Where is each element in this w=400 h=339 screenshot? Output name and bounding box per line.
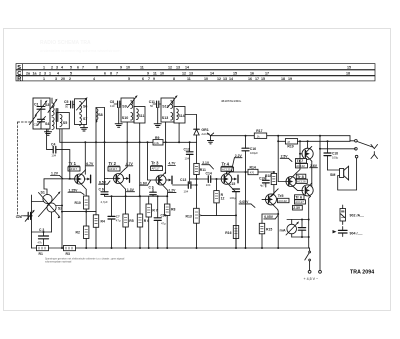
AGC line	[85, 141, 153, 143]
meter mA	[280, 220, 300, 238]
svg-text:46107/9x1/9CL: 46107/9x1/9CL	[221, 99, 242, 103]
svg-text:2: 2	[51, 65, 53, 69]
svg-text:R5: R5	[129, 219, 133, 223]
svg-text:18: 18	[281, 77, 285, 81]
svg-text:Tr 3: Tr 3	[151, 161, 159, 166]
IF3 secondary box S14	[174, 107, 185, 124]
svg-text:C13: C13	[180, 178, 186, 182]
svg-text:14: 14	[229, 77, 233, 81]
svg-text:C4: C4	[51, 142, 55, 146]
node Tr8 upper	[299, 153, 301, 155]
oscillator bottom node line	[32, 231, 52, 233]
svg-text:8: 8	[173, 77, 175, 81]
voltage flag 0.05V right	[264, 215, 278, 219]
wire Tr7 collector to rail	[307, 141, 309, 148]
label Tr5 AC132	[278, 194, 290, 203]
svg-text:9: 9	[153, 77, 155, 81]
svg-text:R10: R10	[75, 201, 81, 205]
supply rail top	[211, 135, 351, 137]
svg-text:R13: R13	[186, 215, 192, 219]
label Tr6 AC127	[295, 195, 306, 204]
svg-text:470: 470	[250, 171, 255, 175]
svg-text:Spanningen gemeten met elektro: Spanningen gemeten met elektronische vol…	[45, 257, 125, 260]
svg-text:1.25V: 1.25V	[69, 188, 79, 192]
svg-text:R16: R16	[225, 231, 231, 235]
svg-text:11: 11	[187, 77, 191, 81]
wire oscillator right to emitter rail	[56, 205, 62, 207]
signal probe symbol	[207, 133, 213, 144]
svg-text:12: 12	[182, 71, 186, 75]
voltage flag 4.7V at Tr2	[125, 162, 133, 166]
svg-text:Tr 4: Tr 4	[222, 161, 230, 166]
capacitor C2a (trimmer)	[16, 210, 35, 222]
bias rail under Tr3	[140, 195, 168, 197]
IF1 primary box S6 S7	[75, 99, 87, 125]
svg-text:17: 17	[255, 77, 259, 81]
svg-text:104: 104	[206, 183, 211, 187]
resistor R3	[64, 246, 76, 257]
svg-text:10: 10	[160, 71, 164, 75]
svg-text:1: 1	[43, 77, 45, 81]
svg-text:8: 8	[110, 71, 112, 75]
wire Tr8 collector up	[296, 154, 300, 174]
svg-text:onderdelen nummering schema wi: onderdelen nummering schema wisselstroom	[40, 48, 121, 53]
svg-text:50: 50	[65, 105, 69, 109]
transistor Tr2	[108, 169, 130, 189]
svg-text:5: 5	[70, 65, 72, 69]
coil S7	[80, 114, 88, 125]
svg-text:16: 16	[250, 71, 254, 75]
svg-text:R: R	[17, 76, 21, 82]
svg-text:2: 2	[69, 77, 71, 81]
voltage flag 2.1V	[202, 161, 214, 169]
svg-text:16: 16	[248, 77, 252, 81]
node R15 tap	[277, 213, 279, 215]
battery terminals	[308, 270, 321, 273]
wire S13 down	[165, 122, 167, 174]
svg-text:12: 12	[217, 77, 221, 81]
coil S8	[96, 108, 105, 123]
transistor Tr3	[155, 172, 172, 190]
svg-text:1.2V: 1.2V	[168, 189, 176, 193]
svg-text:AF117: AF117	[152, 167, 160, 171]
svg-text:4,7μF: 4,7μF	[101, 200, 108, 204]
capacitor C18	[324, 141, 339, 170]
svg-text:6: 6	[77, 65, 79, 69]
mains adapter 904	[333, 227, 363, 237]
table row C numbers	[26, 71, 350, 75]
svg-text:Tr 1: Tr 1	[69, 161, 77, 166]
node dots on bus	[61, 247, 279, 249]
transistor Tr4	[216, 171, 238, 190]
svg-text:100μF: 100μF	[250, 151, 258, 155]
wire Tr2 collector	[125, 167, 128, 169]
wire S10 down	[126, 122, 128, 167]
node Tr7 collector	[307, 140, 309, 142]
resistor R17	[254, 129, 266, 139]
svg-text:18: 18	[346, 71, 350, 75]
svg-text:R19: R19	[287, 145, 293, 149]
svg-text:100μ: 100μ	[230, 196, 237, 200]
wire oscillator left	[32, 201, 44, 203]
voltage flag 2.6V	[310, 164, 318, 168]
svg-text:100μ: 100μ	[332, 156, 339, 160]
svg-text:C 9: C 9	[149, 185, 154, 189]
left rail of oscillator	[31, 195, 33, 248]
svg-text:2.1V: 2.1V	[202, 161, 210, 165]
svg-text:14: 14	[210, 71, 214, 75]
svg-text:2.6V: 2.6V	[310, 164, 318, 168]
potentiometer R13 volume	[186, 175, 217, 248]
svg-text:7: 7	[148, 77, 150, 81]
svg-text:S4: S4	[45, 122, 49, 126]
oscillator coil S2	[47, 203, 62, 212]
svg-text:1: 1	[49, 71, 51, 75]
svg-text:AC132: AC132	[296, 164, 305, 168]
svg-text:C2a: C2a	[16, 215, 22, 219]
svg-text:AF117: AF117	[109, 167, 117, 171]
svg-text:104: 104	[185, 156, 190, 160]
svg-text:S9: S9	[122, 104, 126, 108]
svg-text:2.2V: 2.2V	[235, 154, 243, 158]
svg-text:6: 6	[104, 71, 106, 75]
wire S8 right rail down	[104, 108, 106, 179]
wire S5 down	[61, 129, 63, 212]
svg-text:SM: SM	[330, 173, 335, 177]
svg-text:1: 1	[43, 65, 45, 69]
resistor R10	[75, 190, 89, 209]
svg-text:S10: S10	[122, 116, 128, 120]
table row letters	[17, 65, 21, 83]
svg-text:11: 11	[153, 71, 157, 75]
svg-text:2.3V: 2.3V	[293, 206, 301, 210]
wire Tr2 base from S8	[105, 178, 108, 180]
svg-text:3: 3	[44, 71, 46, 75]
output stage vertical	[311, 161, 313, 186]
coil S5	[60, 115, 67, 127]
wire R14 to R18	[258, 171, 274, 173]
svg-text:Tr5: Tr5	[278, 194, 284, 198]
svg-text:Tr 8: Tr 8	[297, 175, 304, 179]
jack plug arm lower	[371, 152, 378, 159]
capacitor C19	[259, 176, 269, 187]
svg-text:2: 2	[39, 71, 41, 75]
node R14 R18	[273, 171, 275, 173]
node oscillator left rail	[31, 215, 33, 217]
resistor R1	[37, 246, 49, 257]
node dots meter	[301, 219, 310, 239]
label Tr2 AF117	[108, 161, 120, 171]
svg-text:S3: S3	[45, 103, 49, 107]
coil S10	[122, 113, 133, 121]
svg-text:S14: S14	[179, 114, 185, 118]
svg-text:47μ: 47μ	[116, 218, 121, 222]
wire R19 feed	[277, 136, 279, 182]
voltage flag 6.7V at Tr1	[86, 162, 94, 166]
ground under gang box	[45, 129, 52, 135]
node dots bias rail left	[111, 195, 142, 197]
svg-text:10: 10	[204, 77, 208, 81]
svg-text:2.5V: 2.5V	[281, 154, 289, 158]
capacitor C8	[110, 100, 121, 108]
voltage flag 2.5V	[280, 154, 292, 161]
ground under C11	[154, 108, 161, 128]
capacitor C14	[197, 171, 216, 187]
coil S5 box	[57, 113, 70, 129]
voltage flag 1.25V at Tr1 emitter	[68, 188, 84, 194]
svg-text:R4: R4	[101, 220, 105, 224]
coil S3	[45, 98, 58, 116]
resistor R14	[248, 166, 258, 175]
resistor R6	[137, 196, 149, 248]
svg-text:TRA 2094: TRA 2094	[350, 270, 374, 276]
svg-text:4: 4	[61, 65, 63, 69]
voltage flag 4.7V at Tr3	[168, 162, 176, 166]
transistor Tr5	[262, 192, 278, 210]
node C16 R14	[245, 171, 247, 173]
capacitor C5	[64, 100, 75, 108]
svg-text:C1: C1	[34, 102, 39, 106]
svg-text:S11: S11	[139, 114, 145, 118]
resistor R8	[165, 191, 176, 249]
ferrite core bars	[56, 109, 58, 122]
svg-text:4: 4	[57, 71, 59, 75]
gang dashed link	[17, 122, 30, 216]
resistor R16	[225, 226, 238, 239]
svg-text:R14: R14	[250, 166, 256, 170]
svg-text:9: 9	[120, 65, 122, 69]
svg-text:3: 3	[55, 77, 57, 81]
capacitor C1 (variable)	[34, 100, 48, 117]
svg-text:0,05V: 0,05V	[264, 215, 274, 219]
component location table	[16, 64, 375, 81]
svg-text:10: 10	[126, 65, 130, 69]
resistor value ticks	[39, 166, 344, 249]
svg-text:47k: 47k	[38, 240, 43, 244]
diode GR1	[185, 115, 210, 143]
resistor R15	[259, 214, 272, 248]
transistor Tr8	[278, 173, 297, 190]
table row S numbers	[43, 65, 351, 69]
svg-text:12: 12	[168, 65, 172, 69]
svg-text:104: 104	[184, 189, 189, 193]
svg-text:902 /A....: 902 /A....	[350, 214, 365, 218]
coil S9	[122, 95, 137, 108]
jack plug arm upper	[357, 142, 377, 149]
wire C18 to speaker	[328, 169, 340, 171]
transistor Tr6	[302, 183, 313, 196]
voltage flag 1.6V at Tr3 base	[140, 181, 151, 186]
wire Tr3 base feed	[148, 142, 155, 180]
coil S14	[177, 109, 185, 120]
capacitor C3	[38, 228, 49, 246]
svg-text:1.3V: 1.3V	[127, 188, 135, 192]
label Tr8 AC128	[296, 174, 307, 183]
svg-text:R3: R3	[66, 252, 70, 256]
node base Tr4	[196, 178, 198, 180]
gang trimmer arrow	[30, 114, 38, 124]
resistor R4	[93, 215, 105, 248]
voltage flag 2.2V	[232, 154, 243, 171]
wire R15 tap	[262, 213, 278, 215]
wire C13 to base node	[190, 178, 197, 180]
wire oscillator bottom	[51, 212, 53, 232]
ground under C8	[115, 108, 122, 128]
svg-text:104: 104	[51, 153, 56, 157]
IF3 primary box S12 S13	[161, 98, 174, 122]
wire antenna box to Tr1 collector	[60, 129, 86, 174]
table row R numbers	[43, 77, 292, 81]
transistor Tr7	[302, 146, 313, 161]
svg-text:8: 8	[96, 65, 98, 69]
svg-text:1.6V: 1.6V	[140, 181, 148, 185]
wire Tr1 base rail	[44, 178, 75, 180]
node dots emitter rail	[61, 211, 87, 213]
wire Tr7 base	[300, 141, 302, 154]
supply bus	[32, 247, 310, 249]
speaker SM	[330, 166, 349, 180]
capacitor C12	[184, 142, 194, 183]
capacitor C6	[99, 179, 109, 205]
wire C16 column to bus	[245, 172, 247, 248]
svg-text:15: 15	[261, 77, 265, 81]
meter bypass capacitor	[298, 220, 305, 238]
svg-text:3: 3	[56, 65, 58, 69]
svg-text:11: 11	[140, 65, 144, 69]
coil S6	[77, 97, 88, 113]
svg-text:C19: C19	[259, 177, 265, 181]
label Tr7 AC132	[296, 159, 308, 169]
voltage flag 6.5V at Tr2 base	[99, 180, 110, 184]
driver bias rail	[278, 140, 285, 142]
svg-text:17: 17	[265, 71, 269, 75]
node Tr1 base	[69, 178, 71, 180]
coil S4	[45, 117, 54, 130]
wire R16 column	[235, 239, 237, 249]
node Tr3 base feed	[147, 141, 149, 143]
svg-text:15: 15	[347, 65, 351, 69]
node dots on AGC line	[84, 141, 190, 143]
svg-text:7: 7	[116, 71, 118, 75]
wire Tr4 emitter down	[233, 190, 236, 249]
label Tr1 AF117	[68, 161, 80, 171]
svg-text:S5: S5	[63, 121, 67, 125]
wire Tr1 base to oscillator	[44, 179, 47, 195]
wire rail to top contact	[350, 136, 355, 141]
wire S8 left rail down	[95, 108, 97, 215]
IF2 secondary box S11	[134, 107, 145, 124]
AGC line right part	[163, 141, 197, 143]
capacitor C13	[173, 178, 197, 194]
capacitor C4	[51, 142, 58, 157]
label Tr3 AF117	[151, 161, 163, 171]
svg-text:R 7: R 7	[152, 209, 157, 213]
emitter rail	[62, 211, 96, 213]
coil S12	[162, 95, 177, 108]
transistor Tr1	[69, 170, 91, 190]
resistor R7	[146, 196, 158, 248]
tuning gang box	[33, 98, 50, 129]
resistor R18	[265, 172, 277, 194]
ground under S6 S7	[81, 125, 88, 132]
svg-text:50: 50	[150, 104, 154, 108]
svg-text:4: 4	[93, 77, 95, 81]
svg-text:904 /.....: 904 /.....	[350, 232, 363, 236]
svg-text:S2: S2	[58, 206, 62, 210]
svg-text:S1: S1	[41, 190, 45, 194]
capacitor C15	[229, 182, 240, 200]
svg-text:S13: S13	[162, 116, 168, 120]
resistor R5	[123, 189, 134, 248]
svg-text:13: 13	[176, 65, 180, 69]
switch to battery	[305, 248, 311, 270]
wire Tr8 emitter to Tr6 base	[298, 189, 302, 191]
svg-text:R9: R9	[155, 136, 159, 140]
svg-text:S7: S7	[83, 117, 87, 121]
svg-text:AC128: AC128	[297, 180, 306, 184]
bias rail left section	[105, 195, 140, 197]
svg-text:6: 6	[142, 77, 144, 81]
voltage flag 1.2V at Tr1 base	[51, 172, 64, 179]
svg-text:C5: C5	[64, 100, 68, 104]
svg-text:12: 12	[221, 197, 225, 201]
svg-text:S8: S8	[98, 113, 102, 117]
node R19 left	[277, 140, 279, 142]
svg-text:47μ: 47μ	[161, 222, 166, 226]
wire Tr4 collector to R14	[227, 172, 249, 174]
coil S11	[137, 109, 145, 120]
svg-text:R8: R8	[171, 208, 175, 212]
wire rail2 to top contact	[349, 140, 351, 143]
meter top line	[287, 219, 309, 221]
voltage flag 0.05V left	[239, 200, 255, 207]
capacitor C9	[149, 185, 157, 196]
wire Tr5 collector up	[275, 189, 278, 192]
svg-text:110: 110	[110, 104, 115, 108]
wire antenna to C4	[47, 129, 52, 150]
long battery rail	[319, 136, 321, 271]
capacitor C10	[154, 196, 166, 248]
svg-text:13: 13	[189, 71, 193, 75]
resistor R12	[214, 179, 236, 215]
voltage flag 1.2V at Tr3 emitter	[168, 189, 176, 193]
svg-text:R17: R17	[256, 129, 262, 133]
node battery rail top	[319, 148, 321, 150]
svg-text:C 6: C 6	[99, 188, 104, 192]
driver bias rail right	[298, 140, 350, 142]
node C13 column	[196, 184, 198, 186]
svg-text:RADIO SCHEMA TRA: RADIO SCHEMA TRA	[40, 40, 91, 46]
svg-text:9: 9	[147, 71, 149, 75]
svg-text:C12: C12	[184, 147, 190, 151]
node dots bias rail	[139, 195, 169, 197]
svg-text:+ 4,5 V −: + 4,5 V −	[304, 277, 319, 281]
battery pack 902/A	[340, 205, 364, 225]
voltage flag 2.3V	[293, 205, 303, 210]
voltage flag 1.3V at Tr2 emitter	[126, 188, 134, 192]
svg-text:15: 15	[233, 71, 237, 75]
wire S11 down to bias rail	[139, 123, 141, 196]
resistor R19	[285, 139, 297, 149]
svg-text:13: 13	[223, 77, 227, 81]
svg-text:4μ7: 4μ7	[260, 183, 265, 187]
resistor R11	[194, 142, 206, 179]
node oscillator right	[61, 205, 63, 207]
svg-text:C15: C15	[229, 182, 235, 186]
svg-text:R2: R2	[76, 231, 80, 235]
svg-text:5: 5	[70, 71, 72, 75]
svg-text:3,3k: 3,3k	[154, 141, 160, 145]
